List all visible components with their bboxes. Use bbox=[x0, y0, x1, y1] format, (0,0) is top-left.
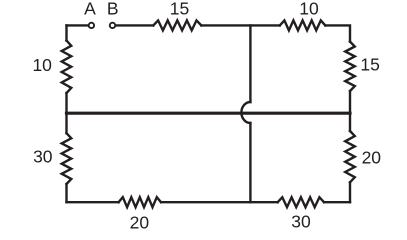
wire: bottom-right segment bbox=[324, 201, 350, 203]
wire: top-left stub to terminal A bbox=[67, 24, 89, 26]
svg-text:30: 30 bbox=[33, 147, 53, 167]
svg-text:10: 10 bbox=[32, 55, 52, 75]
svg-text:B: B bbox=[107, 0, 119, 18]
resistor 20 (right lower) bbox=[345, 131, 355, 182]
wire: right vertical bottom segment bbox=[349, 182, 351, 202]
resistor 15 (top) bbox=[153, 20, 201, 30]
svg-text:15: 15 bbox=[170, 0, 189, 18]
terminal B bbox=[110, 23, 115, 28]
svg-text:20: 20 bbox=[130, 213, 150, 233]
svg-text:10: 10 bbox=[299, 0, 319, 19]
svg-text:15: 15 bbox=[360, 54, 379, 74]
resistor 10 (left upper) bbox=[62, 41, 72, 94]
wire: top middle segment bbox=[201, 24, 279, 26]
wire: middle vertical lower segment bbox=[249, 123, 251, 202]
wire: bottom-left segment bbox=[67, 201, 119, 203]
wire: middle vertical upper segment bbox=[249, 25, 251, 102]
wire: top-right corner segment bbox=[325, 25, 350, 41]
svg-text:20: 20 bbox=[362, 148, 382, 168]
terminal A bbox=[89, 23, 94, 28]
resistor 20 (bottom left) bbox=[119, 197, 161, 207]
resistor 30 (bottom right) bbox=[278, 197, 324, 207]
svg-text:30: 30 bbox=[291, 212, 311, 232]
svg-text:A: A bbox=[84, 0, 96, 18]
wire: left vertical bottom segment bbox=[65, 184, 67, 202]
wire: bottom middle segment bbox=[161, 201, 278, 203]
resistor 10 (top right) bbox=[280, 20, 326, 30]
wire: terminal B to resistor 15 bbox=[116, 24, 153, 26]
wire: left vertical middle segment bbox=[65, 93, 67, 133]
wire: middle horizontal bus bbox=[67, 112, 351, 115]
wire: left vertical top segment bbox=[65, 25, 67, 40]
resistor 15 (right upper) bbox=[345, 42, 355, 91]
wire crossover hop (no connection) bbox=[241, 102, 250, 123]
wire: right vertical middle segment bbox=[349, 91, 351, 131]
resistor 30 (left lower) bbox=[62, 133, 72, 184]
